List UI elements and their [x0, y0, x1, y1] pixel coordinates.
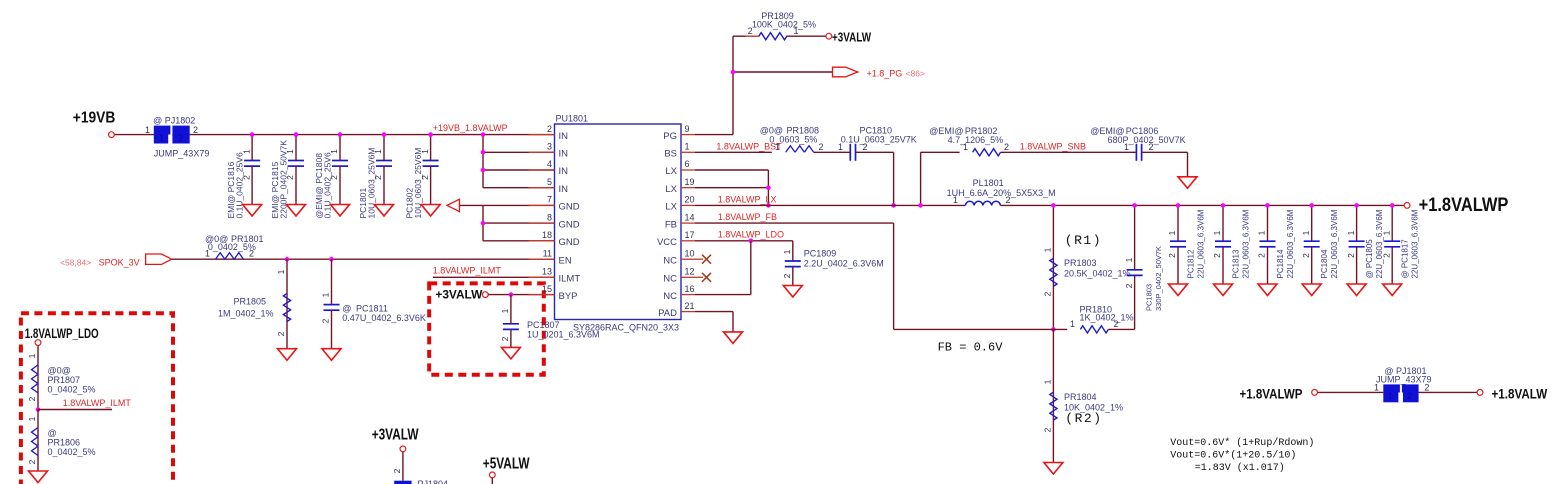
- wire NC16 to VCC: [750, 241, 752, 295]
- junction: [36, 407, 41, 412]
- capacitor PC1807: [500, 295, 599, 348]
- svg-text:2: 2: [321, 318, 331, 323]
- svg-text:22U_0603_6.3V6M: 22U_0603_6.3V6M: [1375, 209, 1384, 278]
- svg-text:PR1807: PR1807: [48, 375, 81, 385]
- svg-text:@ PC1805: @ PC1805: [1365, 239, 1374, 279]
- capacitor PC1816: [226, 135, 260, 219]
- ground: [29, 471, 48, 483]
- svg-text:2: 2: [748, 26, 753, 36]
- svg-text:3: 3: [547, 142, 552, 152]
- svg-text:PJ1804: PJ1804: [418, 479, 449, 484]
- IC pins right: [681, 134, 695, 136]
- svg-text:1: 1: [276, 269, 286, 274]
- svg-text:1: 1: [1388, 391, 1393, 401]
- svg-text:PC1804: PC1804: [1320, 249, 1329, 278]
- junction: [1390, 203, 1395, 208]
- resistor PR1801: [205, 234, 264, 259]
- junction: [481, 132, 486, 137]
- svg-text:0.1U_0402_25V6: 0.1U_0402_25V6: [235, 152, 245, 218]
- svg-text:1.8VALWP_ILMT: 1.8VALWP_ILMT: [433, 266, 502, 276]
- capacitor PC1802: [405, 135, 439, 219]
- svg-text:2: 2: [863, 142, 868, 152]
- wire LX6/LX19: [695, 169, 768, 171]
- terminal +3VALW (PG): [826, 33, 832, 39]
- svg-text:PC1814: PC1814: [1276, 249, 1285, 278]
- svg-text:+1.8VALWP: +1.8VALWP: [1419, 195, 1509, 216]
- svg-text:PC1812: PC1812: [1187, 249, 1196, 278]
- svg-text:11: 11: [543, 248, 552, 258]
- svg-text:@: @: [342, 304, 351, 314]
- inductor PL1801: [947, 178, 1056, 205]
- junction: [428, 132, 433, 137]
- svg-text:2: 2: [1004, 142, 1009, 152]
- capacitor PC1805: [1346, 205, 1384, 284]
- ground: [1302, 284, 1321, 296]
- IC pins left: [529, 134, 555, 136]
- port arrow (gnd net, points left): [447, 199, 460, 211]
- svg-text:1: 1: [1301, 230, 1311, 235]
- svg-text:1: 1: [145, 125, 150, 135]
- svg-text:PU1801: PU1801: [556, 114, 589, 124]
- ground: [1044, 463, 1063, 475]
- junction: [1354, 203, 1359, 208]
- svg-text:7: 7: [547, 195, 552, 205]
- svg-text:GND: GND: [559, 202, 580, 213]
- svg-text:2: 2: [547, 124, 552, 134]
- svg-text:4: 4: [547, 159, 552, 169]
- svg-text:1: 1: [963, 142, 968, 152]
- svg-text:+19VB: +19VB: [73, 110, 116, 127]
- capacitor PC1811: [321, 259, 426, 349]
- junction: [918, 203, 923, 208]
- svg-text:EN: EN: [559, 255, 572, 266]
- svg-text:22U_0603_6.3V6M: 22U_0603_6.3V6M: [1241, 209, 1250, 278]
- svg-text:IN: IN: [559, 131, 569, 142]
- svg-text:<58,84>: <58,84>: [60, 258, 91, 268]
- svg-text:4.7_1206_5%: 4.7_1206_5%: [948, 135, 1004, 145]
- svg-text:+19VB_1.8VALWP: +19VB_1.8VALWP: [433, 123, 508, 133]
- ground: [1347, 284, 1366, 296]
- svg-text:GND: GND: [559, 237, 580, 248]
- svg-text:2: 2: [1257, 253, 1267, 258]
- svg-text:13: 13: [542, 267, 552, 277]
- capacitor PC1808: [314, 135, 348, 219]
- svg-text:100K_0402_5%: 100K_0402_5%: [752, 20, 816, 30]
- svg-text:+5VALW: +5VALW: [483, 455, 530, 472]
- ground: [1258, 284, 1277, 296]
- wire to port: [733, 71, 833, 73]
- capacitor PC1813: [1212, 205, 1250, 284]
- svg-text:2: 2: [1212, 253, 1222, 258]
- svg-text:BS: BS: [664, 149, 677, 160]
- svg-text:22U_0603_6.3V6M: 22U_0603_6.3V6M: [1196, 209, 1205, 278]
- svg-text:PC1813: PC1813: [1232, 249, 1241, 278]
- svg-text:1: 1: [1043, 379, 1053, 384]
- svg-text:2: 2: [782, 273, 792, 278]
- dashed box 1.8VALWP_LDO: [21, 313, 173, 484]
- svg-text:2: 2: [500, 336, 510, 341]
- svg-text:21: 21: [685, 301, 695, 311]
- capacitor PC1810: [838, 126, 917, 161]
- junction: [1265, 203, 1270, 208]
- svg-text:2: 2: [193, 125, 198, 135]
- svg-text:GND: GND: [559, 219, 580, 230]
- svg-text:1: 1: [1257, 230, 1267, 235]
- svg-text:2.2U_0402_6.3V6M: 2.2U_0402_6.3V6M: [804, 258, 884, 268]
- svg-text:NC: NC: [663, 291, 677, 302]
- junction: [481, 221, 486, 226]
- svg-text:+3VALW: +3VALW: [372, 427, 419, 444]
- capacitor PC1817: [1381, 205, 1419, 284]
- svg-text:2: 2: [1149, 142, 1154, 152]
- svg-text:1: 1: [27, 353, 37, 358]
- svg-text:PR1806: PR1806: [48, 438, 81, 448]
- junction: [285, 257, 290, 262]
- svg-text:1: 1: [1374, 383, 1379, 393]
- svg-text:+3VALW: +3VALW: [435, 288, 483, 302]
- svg-text:VCC: VCC: [657, 237, 677, 248]
- svg-text:2200P_0402_50V7K: 2200P_0402_50V7K: [279, 140, 289, 219]
- svg-text:1: 1: [775, 142, 780, 152]
- resistor PR1805: [218, 259, 291, 349]
- svg-text:1: 1: [1346, 230, 1356, 235]
- svg-text:680P_0402_50V7K: 680P_0402_50V7K: [1108, 135, 1186, 145]
- ground: [1169, 284, 1188, 296]
- svg-text:+1.8_PG: +1.8_PG: [867, 69, 903, 79]
- svg-text:10U_0603_25V6M: 10U_0603_25V6M: [367, 148, 377, 219]
- junction: [1176, 203, 1181, 208]
- jumper PJ1802: [154, 126, 190, 144]
- svg-text:PL1801: PL1801: [973, 178, 1004, 188]
- wire IN bus: [482, 135, 484, 188]
- no-connect X: [695, 276, 703, 278]
- svg-text:1: 1: [685, 142, 690, 152]
- svg-text:PC1811: PC1811: [356, 304, 388, 314]
- resistor PR1803: [1043, 205, 1131, 329]
- svg-text:2: 2: [1346, 253, 1356, 258]
- jumper PJ1801: [1383, 384, 1418, 402]
- resistor PR1806: [27, 410, 95, 472]
- svg-text:LX: LX: [665, 184, 677, 195]
- svg-text:PC1809: PC1809: [804, 249, 837, 259]
- svg-text:1: 1: [953, 195, 958, 205]
- junction: [766, 203, 771, 208]
- ground: [287, 205, 306, 217]
- terminal +3VALW (BYP): [482, 292, 488, 298]
- svg-text:JUMP_43X79: JUMP_43X79: [154, 148, 210, 158]
- svg-text:1: 1: [1381, 230, 1391, 235]
- svg-text:2: 2: [1167, 253, 1177, 258]
- ground: [501, 347, 520, 359]
- svg-text:1: 1: [1212, 230, 1222, 235]
- svg-text:1K_0402_1%: 1K_0402_1%: [1080, 312, 1134, 322]
- svg-text:PAD: PAD: [658, 308, 677, 319]
- junction: [749, 239, 754, 244]
- svg-text:1.8VALWP_SNB: 1.8VALWP_SNB: [1020, 141, 1086, 151]
- junction: [294, 132, 299, 137]
- svg-text:1UH_6.6A_20%_5X5X3_M: 1UH_6.6A_20%_5X5X3_M: [947, 188, 1056, 198]
- svg-text:JUMP_43X79: JUMP_43X79: [1376, 375, 1432, 385]
- svg-text:18: 18: [542, 230, 552, 240]
- svg-text:@0@: @0@: [48, 366, 71, 376]
- svg-text:2: 2: [1381, 253, 1391, 258]
- port SPOK_3V: [146, 254, 172, 264]
- svg-text:2: 2: [178, 133, 183, 143]
- ground: [724, 332, 743, 344]
- svg-text:1: 1: [838, 142, 843, 152]
- junction: [766, 185, 771, 190]
- svg-text:NC: NC: [663, 274, 677, 285]
- capacitor PC1801: [358, 135, 392, 219]
- svg-text:IN: IN: [559, 184, 569, 195]
- svg-text:0_0402_5%: 0_0402_5%: [48, 385, 96, 395]
- svg-text:FB = 0.6V: FB = 0.6V: [938, 341, 1004, 355]
- ground: [322, 349, 341, 361]
- terminal +19VB: [109, 132, 115, 138]
- capacitor PC1815: [270, 135, 304, 219]
- svg-text:19: 19: [685, 177, 695, 187]
- svg-text:15: 15: [542, 284, 552, 294]
- svg-text:1: 1: [1070, 319, 1075, 329]
- svg-text:2: 2: [1301, 253, 1311, 258]
- svg-text:1.8VALWP_ILMT: 1.8VALWP_ILMT: [63, 398, 132, 408]
- junction: [731, 70, 736, 75]
- svg-text:1: 1: [1124, 142, 1129, 152]
- svg-text:@: @: [48, 428, 57, 438]
- capacitor PC1806: [1090, 126, 1187, 161]
- dashed box BYP: [429, 283, 544, 374]
- svg-text:10: 10: [685, 248, 695, 258]
- junction: [1051, 327, 1056, 332]
- svg-text:2: 2: [249, 249, 254, 259]
- svg-text:1.8VALWP_FB: 1.8VALWP_FB: [718, 212, 777, 222]
- svg-text:SPOK_3V: SPOK_3V: [99, 258, 140, 268]
- svg-text:2: 2: [1006, 195, 1011, 205]
- svg-text:0.1U_0402_25V6: 0.1U_0402_25V6: [323, 152, 333, 218]
- svg-text:0_0402_5%: 0_0402_5%: [48, 447, 96, 457]
- svg-text:(R2): (R2): [1065, 411, 1102, 426]
- wire BST down to LX: [893, 152, 895, 205]
- svg-text:+1.8VALWP: +1.8VALWP: [1240, 386, 1303, 401]
- svg-text:1: 1: [1167, 230, 1177, 235]
- terminal 1.8VALWP_LDO: [35, 340, 41, 346]
- junction: [891, 203, 896, 208]
- svg-text:LX: LX: [665, 166, 677, 177]
- svg-text:1.8VALWP_LDO: 1.8VALWP_LDO: [25, 326, 99, 341]
- resistor PR1807: [27, 346, 95, 410]
- svg-text:2: 2: [1124, 283, 1134, 288]
- svg-text:2: 2: [1043, 427, 1053, 432]
- svg-text:Vout=0.6V*(1+20.5/10): Vout=0.6V*(1+20.5/10): [1170, 450, 1296, 462]
- svg-text:1.8VALWP_LDO: 1.8VALWP_LDO: [718, 230, 784, 240]
- svg-text:LX: LX: [665, 202, 677, 213]
- svg-text:=1.83V (x1.017): =1.83V (x1.017): [1195, 462, 1285, 474]
- wire LX rail: [695, 204, 965, 206]
- junction: [382, 132, 387, 137]
- svg-text:2: 2: [1407, 391, 1412, 401]
- capacitor PC1812: [1167, 205, 1205, 284]
- svg-text:SY8286RAC_QFN20_3X3: SY8286RAC_QFN20_3X3: [573, 323, 679, 333]
- svg-text:1M_0402_1%: 1M_0402_1%: [218, 309, 274, 319]
- capacitor PC1803: [1124, 205, 1163, 329]
- op-amp / regulator IC PU1801 SY8286RAC: [555, 124, 682, 320]
- junction: [1132, 203, 1137, 208]
- wire BS: [695, 151, 772, 153]
- terminal +1.8VALW: [1477, 390, 1483, 396]
- junction: [1051, 203, 1056, 208]
- wire: +19VB top rail: [114, 134, 555, 136]
- svg-text:17: 17: [685, 230, 695, 240]
- junction: [1221, 203, 1226, 208]
- svg-text:1.8VALWP_LX: 1.8VALWP_LX: [718, 195, 777, 205]
- ground: [1383, 284, 1402, 296]
- wire snubber: [920, 152, 922, 205]
- svg-text:12: 12: [685, 267, 695, 277]
- svg-text:330P_0402_50V7K: 330P_0402_50V7K: [1154, 246, 1163, 311]
- resistor PR1802: [929, 126, 1136, 156]
- svg-text:8: 8: [547, 212, 552, 222]
- resistor PR1808: [760, 126, 851, 153]
- capacitor PC1814: [1257, 205, 1295, 284]
- capacitor PC1809: [782, 241, 884, 286]
- svg-text:@ PC1817: @ PC1817: [1401, 239, 1410, 279]
- svg-text:2: 2: [392, 468, 402, 473]
- svg-text:6: 6: [685, 159, 690, 169]
- svg-text:PR1804: PR1804: [1064, 392, 1097, 402]
- svg-text:PR1803: PR1803: [1064, 258, 1097, 268]
- svg-text:+3VALW: +3VALW: [832, 30, 871, 44]
- svg-text:1: 1: [321, 292, 331, 297]
- resistor PR1810: [1070, 305, 1135, 334]
- terminal +1.8VALWP: [1404, 203, 1410, 209]
- svg-text:NC: NC: [663, 255, 677, 266]
- svg-text:22U_0603_6.3V6M: 22U_0603_6.3V6M: [1411, 209, 1420, 278]
- ground: [331, 205, 350, 217]
- wire PAD: [695, 311, 733, 313]
- resistor PR1804: [1043, 329, 1123, 462]
- junction: [481, 150, 486, 155]
- svg-text:1: 1: [782, 249, 792, 254]
- svg-text:<86>: <86>: [906, 69, 925, 79]
- svg-text:9: 9: [685, 124, 690, 134]
- svg-text:BYP: BYP: [559, 291, 578, 302]
- svg-text:2: 2: [27, 459, 37, 464]
- jumper PJ1804 partial: [394, 481, 411, 484]
- svg-text:1: 1: [1043, 247, 1053, 252]
- wire: [1318, 391, 1384, 393]
- svg-text:20.5K_0402_1%: 20.5K_0402_1%: [1064, 269, 1131, 279]
- svg-text:5: 5: [547, 177, 552, 187]
- svg-text:2: 2: [1114, 319, 1119, 329]
- wire EN: [172, 258, 555, 260]
- capacitor PC1804: [1301, 205, 1339, 284]
- svg-text:22U_0603_6.3V6M: 22U_0603_6.3V6M: [1286, 209, 1295, 278]
- no-connect X: [695, 258, 703, 260]
- junction: [250, 132, 255, 137]
- svg-text:1: 1: [500, 308, 510, 313]
- svg-text:IN: IN: [559, 166, 569, 177]
- ground: [1214, 284, 1233, 296]
- ground: [783, 286, 802, 298]
- ground: [243, 205, 262, 217]
- svg-text:1: 1: [794, 26, 799, 36]
- svg-text:PR1805: PR1805: [233, 297, 266, 307]
- svg-text:PC1803: PC1803: [1145, 284, 1154, 311]
- svg-text:14: 14: [685, 212, 695, 222]
- svg-text:IN: IN: [559, 149, 569, 160]
- svg-text:@ PJ1802: @ PJ1802: [153, 116, 195, 126]
- svg-text:2: 2: [1424, 383, 1429, 393]
- svg-text:2: 2: [27, 396, 37, 401]
- ground: [1178, 177, 1197, 189]
- svg-text:PG: PG: [663, 131, 677, 142]
- svg-text:1: 1: [205, 249, 210, 259]
- junction: [329, 257, 334, 262]
- svg-text:16: 16: [685, 284, 695, 294]
- svg-text:+1.8VALW: +1.8VALW: [1492, 386, 1548, 401]
- junction: [509, 292, 514, 297]
- junction: [481, 168, 486, 173]
- svg-text:FB: FB: [665, 219, 677, 230]
- svg-text:(R1): (R1): [1065, 233, 1102, 248]
- svg-text:0.47U_0402_6.3V6K: 0.47U_0402_6.3V6K: [342, 313, 426, 323]
- svg-text:2: 2: [276, 331, 286, 336]
- svg-text:20: 20: [685, 195, 695, 205]
- resistor PR1809: [746, 11, 827, 40]
- svg-text:22U_0603_6.3V6M: 22U_0603_6.3V6M: [1330, 209, 1339, 278]
- wire BYP: [488, 294, 554, 296]
- svg-text:1: 1: [159, 133, 164, 143]
- wire GND bus: [482, 205, 484, 240]
- ground: [375, 205, 394, 217]
- svg-text:ILMT: ILMT: [559, 274, 581, 285]
- junction: [338, 132, 343, 137]
- svg-text:0.1U_0603_25V7K: 0.1U_0603_25V7K: [841, 134, 917, 144]
- ground: [421, 205, 440, 217]
- svg-text:2: 2: [819, 142, 824, 152]
- svg-text:1: 1: [1124, 257, 1134, 262]
- svg-text:Vout=0.6V* (1+Rup/Rdown): Vout=0.6V* (1+Rup/Rdown): [1170, 437, 1314, 449]
- wire PG: [695, 134, 733, 136]
- svg-text:1: 1: [27, 416, 37, 421]
- wire: [1419, 391, 1477, 393]
- junction: [1309, 203, 1314, 208]
- svg-text:2: 2: [1043, 291, 1053, 296]
- svg-text:10U_0603_25V6M: 10U_0603_25V6M: [413, 148, 423, 219]
- ground: [278, 349, 297, 361]
- port +1.8_PG: [833, 67, 858, 77]
